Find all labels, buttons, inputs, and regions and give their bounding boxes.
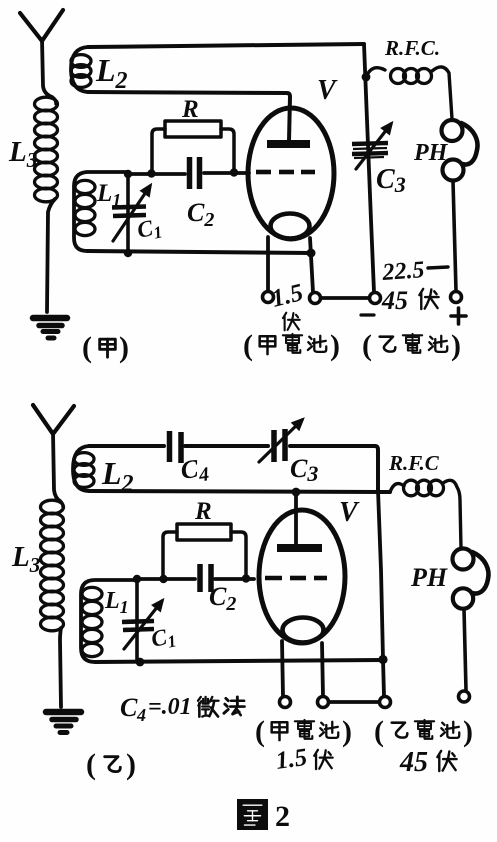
svg-text:): ) [342,715,352,748]
svg-text:(: ( [82,331,92,364]
headphone band (circuit 乙) [472,552,488,593]
svg-text:22.5: 22.5 [381,257,426,286]
capacitor C3 variable arrow (circuit 甲) [356,124,391,169]
capacitor C2 (circuit 甲) [190,157,200,189]
terminal B+ (circuit 甲) [451,292,462,303]
terminal B- (circuit 甲) [370,293,381,304]
antenna arm left (circuit 甲) [20,13,42,41]
terminal A- (circuit 乙) [280,697,291,708]
antenna arm left (circuit 乙) [33,405,53,434]
capacitor C1 plates (circuit 乙) [122,621,154,630]
svg-text:C4: C4 [179,452,211,488]
RF choke lead-out to phones (circuit 甲) [432,67,452,119]
circuit label 甲 [100,339,116,357]
svg-text:(: ( [243,329,253,362]
tube filament left leg (circuit 甲) [266,237,270,291]
svg-text:R.F.C: R.F.C [388,451,440,475]
coil L3 (circuit 甲) [35,97,58,202]
headphone earpiece bottom (circuit 乙) [453,588,473,608]
headphone earpiece top (circuit 甲) [442,120,463,141]
label 伏 (circuit 乙 A battery, sw_scale=1.12) [314,750,332,769]
svg-text:L1: L1 [96,180,121,210]
wire C4 to C3 (circuit 乙) [185,444,268,448]
battery label 電 (circuit 甲, sw_scale=1.12) [403,334,422,353]
battery label 池 (circuit 乙, sw_scale=1.12) [441,722,459,738]
wire phones to + terminal (circuit 甲) [453,181,456,291]
capacitor C1 connecting wire (circuit 甲) [126,174,130,252]
wire L2 top lead to C4 (circuit 乙) [89,444,164,448]
battery label 乙 (circuit 甲, sw_scale=1.12) [380,337,396,352]
tube filament left leg (circuit 乙) [282,641,283,696]
svg-text:4: 4 [136,705,146,725]
svg-text:(: ( [374,715,384,748]
svg-text:L1: L1 [104,588,129,617]
wire into L3 top (circuit 乙) [60,501,63,507]
terminal A+ (circuit 乙) [318,697,329,708]
wire grid line right segment to tube (circuit 甲) [204,171,249,175]
wire grid line left segment (circuit 甲) [128,172,185,176]
svg-text:C1: C1 [135,213,164,245]
wire into L3 top (circuit 甲) [52,97,56,104]
capacitor C1 connecting wire (circuit 乙) [135,579,139,662]
resistor R body (circuit 甲) [165,121,221,137]
junction C1 top / grid line (circuit 乙) [133,575,141,583]
circuit label 乙 [105,757,121,772]
capacitor C3 plates (circuit 甲) [352,143,388,158]
svg-text:C1: C1 [149,622,178,654]
svg-text:(: ( [86,748,96,781]
battery label 電 (circuit 乙, sw_scale=1.12) [415,720,434,739]
RF choke turn 2 (circuit 乙) [417,480,432,496]
wire L2 bottom lead / plate line to RFC (circuit 乙) [89,491,390,492]
terminal A- (circuit 甲) [263,292,274,303]
junction plate lead (circuit 乙) [292,488,301,497]
coil L2 left loop end (circuit 甲) [71,47,88,92]
label range dash ~ (circuit 甲) [428,267,448,268]
antenna lead-in wire (circuit 甲) [42,39,52,97]
capacitor C3 variable arrow (circuit 乙) [259,420,302,462]
svg-text:R.F.C.: R.F.C. [384,36,440,60]
tube plate top lead (circuit 乙) [294,493,298,544]
junction C1 bottom / rail (circuit 乙) [136,658,145,667]
tube V grid dashes (circuit 甲) [256,170,315,175]
tube V plate bar (circuit 甲) [267,140,310,148]
svg-text:): ) [463,715,473,748]
wire right vertical C3 node to terminal B- (circuit 乙) [378,490,384,696]
terminal B- (circuit 乙) [380,697,391,708]
svg-text:PH: PH [410,563,448,592]
wire grid line left segment (circuit 乙) [137,577,195,581]
svg-text:1.5: 1.5 [269,279,306,313]
svg-text:1.5: 1.5 [274,744,309,775]
label 伏 (circuit 乙 B battery, sw_scale=1.12) [437,751,456,771]
headphone band (circuit 甲) [461,123,477,164]
capacitor C4 (circuit 乙) [170,431,182,463]
junction R left / grid line (circuit 甲) [147,169,155,177]
headphone earpiece bottom (circuit 甲) [443,160,464,181]
wire grid line right segment (circuit 乙) [215,577,254,581]
svg-text:): ) [119,331,129,364]
terminal B+ (circuit 乙) [459,691,470,702]
svg-text:C2: C2 [187,198,214,231]
terminal A+ (circuit 甲) [310,293,321,304]
coil L1 turns (circuit 甲) [75,180,95,235]
wire L2 top lead to C3/RFC node (circuit 甲) [88,44,364,47]
RF choke lead-in (circuit 甲) [366,68,385,77]
battery label 甲 (circuit 甲, sw_scale=1.12) [260,336,276,354]
junction R right / grid line (circuit 乙) [242,574,250,582]
svg-text:(: ( [362,329,372,362]
svg-text:V: V [339,497,360,528]
svg-text:L3: L3 [11,541,40,577]
svg-text:L2: L2 [95,52,128,94]
capacitor C3 plates (circuit 乙) [274,429,285,462]
battery label 乙 (circuit 乙, sw_scale=1.12) [392,723,408,738]
svg-text:L3: L3 [8,136,37,172]
tube V plate bar (circuit 乙) [277,544,322,552]
battery label 甲 (circuit 乙, sw_scale=1.12) [272,722,288,740]
antenna arm right (circuit 乙) [53,406,74,434]
capacitor C1 variable arrow (circuit 甲) [113,186,150,241]
svg-text:): ) [330,329,340,362]
headphone earpiece top (circuit 乙) [453,549,474,570]
svg-text:C2: C2 [209,582,236,615]
svg-text:2: 2 [275,800,290,833]
RF choke turn 1 (circuit 甲) [391,69,406,84]
junction R right / grid line (circuit 甲) [230,168,238,176]
junction C1 top / grid line (circuit 甲) [124,170,132,178]
wire L3 to ground (circuit 甲) [47,199,55,312]
caption 圖 [237,799,268,830]
coil L1 hairpin (circuit 甲) [74,172,128,251]
coil L2 left loop end (circuit 乙) [73,446,89,491]
wire L3 to ground (circuit 乙) [60,628,61,707]
resistor R left lead (circuit 乙) [163,532,177,575]
label 伏 volts B battery (circuit 甲, sw_scale=1.12) [419,289,438,309]
note 微 micro (circuit 乙) [198,697,219,717]
tube V envelope (circuit 乙) [259,510,345,643]
wire terminal A+ to B- (circuit 乙) [329,700,379,704]
svg-text:): ) [126,748,136,781]
battery label 池 (circuit 乙, sw_scale=1.12) [320,722,338,738]
RF choke lead-in (circuit 乙) [390,484,404,492]
battery label 池 (circuit 甲, sw_scale=1.12) [429,336,447,352]
wire C3 to right vertical (circuit 乙) [290,446,378,490]
polarity plus sign (circuit 甲) [451,308,466,324]
tube V filament loop (circuit 甲) [271,214,310,239]
battery label 電 (circuit 乙, sw_scale=1.12) [295,720,314,739]
svg-text:C: C [120,693,138,722]
ground symbol (circuit 甲) [33,318,67,338]
junction rail / filament leg (circuit 甲) [307,249,316,258]
tube V filament loop (circuit 乙) [283,618,324,643]
coil L1 hairpin (circuit 乙) [81,580,137,662]
tube V envelope (circuit 甲) [248,108,334,239]
resistor R right lead (circuit 乙) [231,532,246,575]
coil L2 turns (circuit 乙) [74,453,94,488]
capacitor C2 (circuit 乙) [200,564,211,592]
wire filament bottom rail (circuit 甲) [87,251,311,253]
RF choke turn 3 (circuit 甲) [417,69,432,84]
tube filament right leg (circuit 甲) [310,238,313,292]
svg-text:45: 45 [381,286,408,315]
junction R left / grid line (circuit 乙) [159,575,167,583]
RF choke turn 1 (circuit 乙) [404,480,419,496]
coil L1 turns (circuit 乙) [82,587,102,656]
svg-text:PH: PH [413,140,449,166]
wire phones to terminal (circuit 乙) [464,609,466,690]
ground symbol (circuit 乙) [46,712,81,733]
capacitor C1 plates (circuit 甲) [112,207,146,217]
RF choke turn 2 (circuit 甲) [404,69,419,84]
svg-text:): ) [451,329,461,362]
wire terminal A+ to B- (circuit 甲) [321,296,369,300]
tube V grid dashes (circuit 乙) [265,576,327,581]
svg-text:(: ( [255,715,265,748]
wire filament bottom rail (circuit 乙) [95,660,383,662]
label 伏 volts (circuit 甲, sw_scale=1.12) [283,313,300,331]
wire top node down to terminal (circuit 甲) [364,44,374,292]
capacitor C1 variable arrow (circuit 乙) [124,601,162,649]
svg-text:R: R [194,498,212,525]
svg-text:R: R [181,96,199,123]
polarity minus sign (circuit 甲) [361,313,374,316]
junction RFC tap (circuit 甲) [362,73,371,82]
junction C1 bottom / filament rail (circuit 甲) [124,249,132,257]
resistor R right lead (circuit 甲) [221,129,234,170]
coil L2 turns (circuit 甲) [71,55,91,88]
wire L2 bottom lead to tube plate (circuit 甲) [88,92,290,141]
tube filament right leg (circuit 乙) [322,643,323,696]
svg-text:C3: C3 [290,454,318,486]
junction right vertical / filament rail (circuit 乙) [378,655,387,664]
svg-text:45: 45 [399,747,428,778]
battery label 池 (circuit 甲, sw_scale=1.12) [308,336,326,352]
battery label 電 (circuit 甲, sw_scale=1.12) [283,334,302,353]
coil L3 (circuit 乙) [41,500,64,631]
note 法 farad (circuit 乙) [224,697,245,715]
RF choke lead-out to phones (circuit 乙) [443,480,461,548]
RF choke turn 3 (circuit 乙) [429,480,444,496]
antenna lead-in wire (circuit 乙) [53,432,60,501]
svg-text:=.01: =.01 [148,694,192,720]
resistor R body (circuit 乙) [177,524,231,540]
resistor R left lead (circuit 甲) [152,129,165,170]
svg-text:C3: C3 [376,164,406,197]
svg-text:V: V [317,75,338,106]
antenna arm right (circuit 甲) [42,10,63,41]
